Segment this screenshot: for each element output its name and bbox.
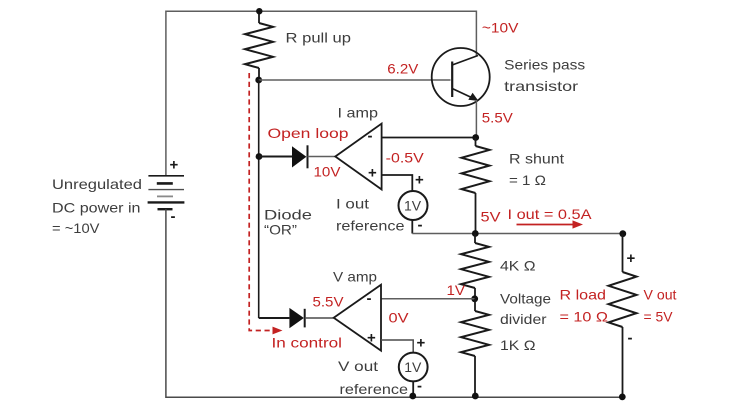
battery V1 — [148, 157, 185, 226]
node: R load bottom — [619, 394, 626, 401]
svg-text:transistor: transistor — [504, 78, 578, 94]
svg-text:5.5V: 5.5V — [313, 294, 345, 310]
svg-text:“OR”: “OR” — [264, 222, 297, 238]
svg-text:+: + — [367, 330, 376, 347]
red arrow I out — [517, 224, 575, 226]
svg-text:R shunt: R shunt — [509, 151, 564, 167]
wire 1V node to V amp minus input — [381, 298, 475, 300]
node: top of R pull up — [256, 8, 262, 14]
resistor R pull up — [245, 11, 273, 80]
svg-text:DC power in: DC power in — [52, 200, 141, 216]
label V out = 5V — [644, 287, 677, 325]
svg-text:In control: In control — [272, 335, 343, 351]
label I out reference — [336, 196, 405, 234]
wire battery negative / bottom rail — [166, 209, 623, 397]
label R shunt = 1 ohm — [509, 151, 564, 189]
svg-text:= ~10V: = ~10V — [52, 220, 100, 236]
node: diode OR tee — [256, 153, 263, 160]
svg-text:+: + — [627, 250, 636, 267]
svg-text:-0.5V: -0.5V — [386, 150, 425, 166]
svg-text:reference: reference — [340, 381, 409, 397]
svg-text:+: + — [415, 172, 424, 189]
label Series pass transistor — [504, 57, 585, 95]
svg-text:-: - — [418, 217, 423, 234]
source I out reference 1V — [399, 172, 428, 234]
wire 6.2V base wire — [259, 79, 451, 81]
svg-text:4K Ω: 4K Ω — [500, 258, 536, 274]
red dashed control path — [249, 73, 273, 331]
svg-text:= 10 Ω: = 10 Ω — [560, 309, 609, 325]
svg-text:-: - — [171, 208, 176, 225]
node: 5.5V node — [472, 134, 479, 141]
svg-text:Diode: Diode — [264, 207, 312, 223]
resistor R2 1K — [461, 299, 489, 398]
svg-text:V out: V out — [644, 287, 677, 303]
svg-text:0V: 0V — [389, 310, 410, 326]
svg-text:1V: 1V — [404, 359, 422, 375]
svg-text:-: - — [417, 378, 422, 395]
svg-text:I amp: I amp — [338, 105, 379, 121]
label Unregulated DC power in — [52, 176, 142, 236]
resistor R load — [609, 234, 637, 398]
source V out reference 1V — [399, 335, 428, 395]
wire emitter to 5.5V node — [475, 100, 477, 138]
wire 5V rail — [412, 233, 623, 235]
svg-text:+: + — [368, 165, 377, 182]
svg-text:V amp: V amp — [333, 269, 377, 285]
svg-text:Open loop: Open loop — [268, 125, 349, 141]
svg-text:Unregulated: Unregulated — [52, 176, 142, 192]
wire vertical feedback bus — [258, 80, 260, 318]
svg-text:I out = 0.5A: I out = 0.5A — [508, 206, 593, 222]
svg-text:6.2V: 6.2V — [387, 61, 419, 77]
svg-text:Series pass: Series pass — [504, 57, 585, 73]
svg-text:10V: 10V — [314, 164, 342, 180]
wire V out reference to bottom rail — [412, 381, 414, 397]
label R load = 10 ohm — [560, 287, 609, 325]
svg-text:I out: I out — [336, 196, 369, 212]
wire I amp minus input to 5.5V node — [382, 137, 476, 139]
svg-text:= 5V: = 5V — [644, 309, 674, 325]
diode D1 (I amp) — [259, 145, 336, 168]
svg-text:+: + — [417, 335, 426, 352]
node: 5V at R shunt bottom — [472, 230, 479, 237]
svg-text:1V: 1V — [447, 282, 466, 298]
red arrowhead in control — [273, 327, 283, 335]
svg-text:= 1 Ω: = 1 Ω — [509, 172, 546, 188]
wire I amp plus input to I out reference — [382, 175, 413, 191]
wire top rail — [166, 11, 477, 175]
svg-text:+: + — [170, 157, 179, 174]
svg-text:1V: 1V — [404, 198, 422, 214]
svg-text:-: - — [367, 290, 372, 307]
node: 5V at R load top — [619, 230, 626, 237]
op-amp U2 V amp — [334, 285, 381, 351]
label Diode OR — [264, 207, 312, 238]
node: 6.2V node under R pull up — [255, 77, 262, 84]
diode D2 (V amp) — [259, 308, 334, 328]
svg-text:divider: divider — [500, 311, 547, 327]
transistor Q1 series pass — [432, 48, 490, 106]
svg-text:1K Ω: 1K Ω — [500, 337, 536, 353]
wire V amp plus to V out reference — [381, 340, 413, 353]
svg-text:Voltage: Voltage — [500, 291, 551, 307]
svg-text:-: - — [368, 128, 373, 145]
node: V out ref at bottom rail — [409, 393, 416, 400]
op-amp U1 I amp — [335, 124, 381, 190]
svg-text:reference: reference — [336, 218, 405, 234]
resistor R1 4K — [461, 234, 489, 299]
node: 1V divider node — [471, 295, 478, 302]
label Voltage divider — [500, 291, 551, 328]
svg-text:V out: V out — [338, 358, 378, 374]
svg-text:~10V: ~10V — [482, 20, 519, 36]
svg-text:5V: 5V — [481, 209, 502, 225]
label V out reference — [338, 358, 408, 397]
svg-text:-: - — [628, 330, 633, 347]
node: divider bottom — [472, 393, 479, 400]
wire I out reference to 5V rail — [411, 220, 413, 234]
svg-text:R load: R load — [560, 287, 607, 303]
svg-text:R pull up: R pull up — [286, 30, 352, 46]
svg-text:5.5V: 5.5V — [482, 110, 514, 126]
resistor R shunt — [462, 138, 490, 234]
